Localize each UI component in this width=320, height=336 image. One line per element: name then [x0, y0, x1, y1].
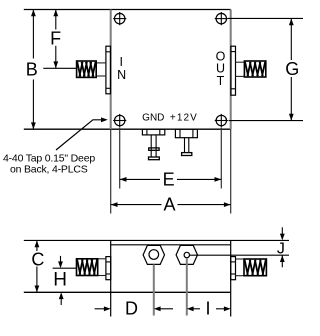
dimension C: [31, 240, 44, 292]
svg-text:J: J: [277, 240, 285, 257]
dimension E: [120, 128, 222, 190]
mounting-hole note with leader: [3, 117, 108, 175]
svg-text:+12V: +12V: [170, 113, 198, 124]
input coupling (side view): [77, 259, 98, 276]
svg-text:D: D: [125, 299, 138, 319]
svg-text:I: I: [205, 299, 210, 319]
svg-text:C: C: [31, 250, 44, 270]
+12V feed-through pin: [175, 129, 197, 155]
input connector threaded coupling: [77, 61, 97, 77]
svg-text:F: F: [50, 29, 61, 49]
dimension J: [190, 227, 289, 267]
input SMA connector (top view): [96, 46, 110, 94]
dimension F: [50, 10, 61, 69]
GND feed-through pin: [142, 129, 164, 160]
svg-text:E: E: [163, 170, 175, 190]
dimension A: [111, 195, 231, 215]
dimension D: [95, 299, 173, 319]
output coupling (side view): [244, 259, 266, 276]
svg-text:B: B: [26, 59, 38, 79]
screw top-left: [113, 12, 126, 25]
screw top-right: [215, 12, 228, 25]
screw bottom-right: [215, 114, 228, 127]
input SMA connector (side view): [98, 257, 111, 280]
+12V pin hex (side view): [176, 245, 197, 264]
svg-text:N: N: [117, 68, 126, 82]
dimension I: [187, 299, 231, 319]
svg-text:4-40 Tap 0.15" Deep: 4-40 Tap 0.15" Deep: [3, 152, 95, 164]
IN port label: [117, 55, 126, 82]
output SMA connector (top view): [231, 46, 245, 95]
svg-text:G: G: [285, 59, 299, 79]
case outline (side view): [24, 240, 289, 316]
connector centerline extension (top view): [43, 67, 76, 69]
output connector threaded coupling: [244, 61, 265, 77]
svg-text:H: H: [53, 269, 67, 290]
dimension H: [53, 256, 77, 305]
dimension G: [228, 18, 303, 120]
output SMA connector (side view): [231, 257, 244, 280]
svg-text:on Back, 4-PLCS: on Back, 4-PLCS: [10, 164, 88, 176]
pin centerline stems: [153, 264, 155, 315]
svg-text:GND: GND: [142, 113, 164, 124]
OUT port label: [216, 49, 226, 88]
dimension B: [26, 10, 38, 130]
svg-text:T: T: [217, 74, 225, 88]
case outline (top view): [24, 10, 231, 214]
GND pin hex (side view): [143, 245, 164, 264]
svg-text:I: I: [120, 55, 123, 69]
svg-text:A: A: [163, 195, 175, 215]
screw bottom-left: [113, 114, 126, 127]
